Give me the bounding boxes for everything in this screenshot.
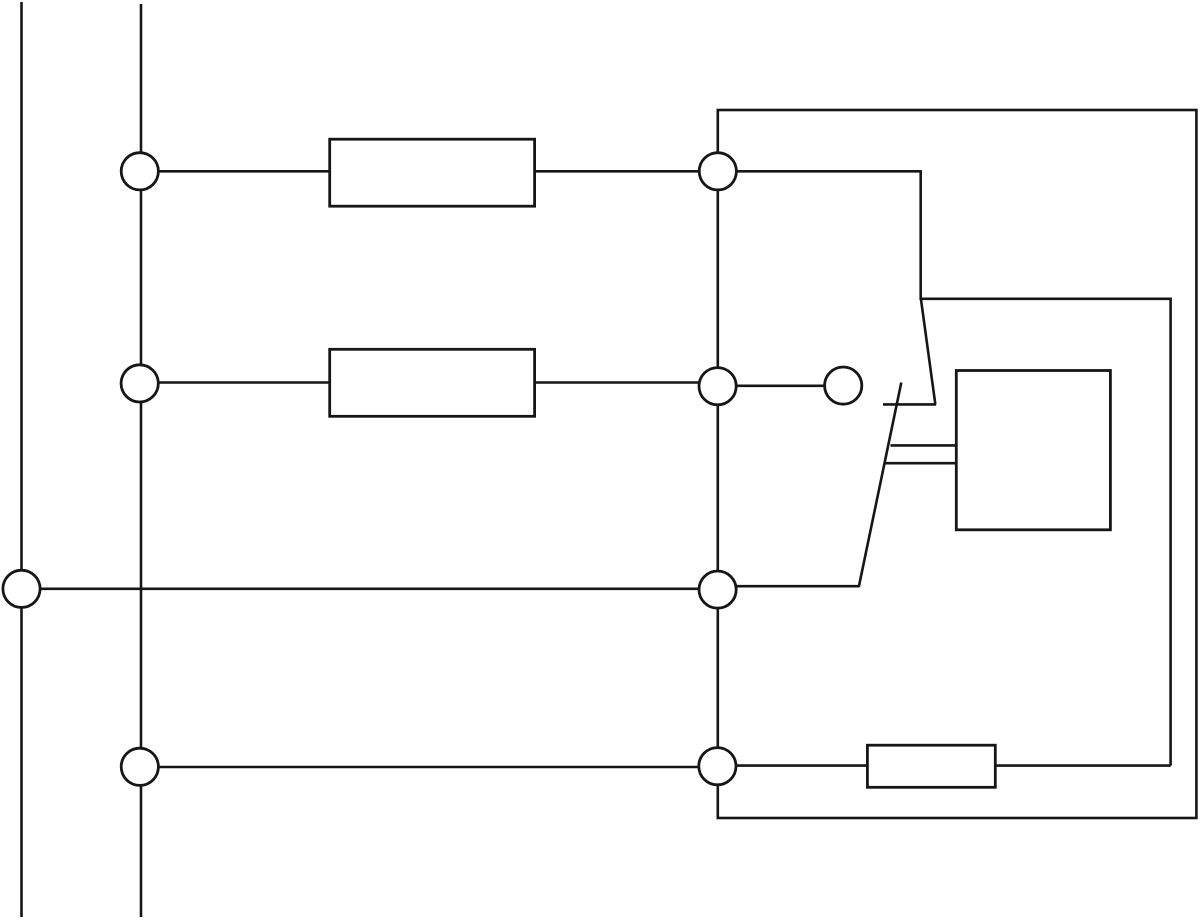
- terminal circle row3 on bus L1: [3, 570, 40, 607]
- wire row2 from bus L2 to terminal T1: [141, 381, 719, 384]
- switch S1 vertical lead: [919, 171, 922, 300]
- terminal circle node B row2: [699, 368, 736, 405]
- terminal circle row1 on bus L2: [121, 153, 158, 190]
- terminal circle node C row3: [699, 571, 736, 608]
- resistor R3 (small, bottom): [867, 745, 995, 787]
- mechanical link upper line: [891, 444, 957, 447]
- wire row3 node C to switch blade: [718, 585, 859, 588]
- wire inner elbow (switch top to right leg down): [922, 299, 1171, 766]
- terminal circle node A row1: [699, 153, 736, 190]
- enclosure outer rectangle: [718, 110, 1197, 818]
- terminal circle T1 switch input: [825, 367, 862, 404]
- switch S1 fixed contact tick: [883, 403, 936, 406]
- wire row4 from bus L2 to node D: [141, 766, 719, 769]
- wire row3 from bus L1 to node C: [22, 587, 719, 590]
- terminal circle row2 on bus L2: [121, 365, 158, 402]
- switch S1 blade: [859, 383, 902, 587]
- bus line L1 (left vertical): [20, 2, 23, 917]
- resistor R1 (fuse, row1): [330, 139, 535, 206]
- resistor R2 (fuse, row2): [330, 349, 535, 416]
- terminal circle row4 on bus L2: [121, 748, 158, 785]
- coil box K1: [956, 371, 1110, 530]
- switch S1 bent lead: [921, 299, 935, 404]
- wire row1 from bus L2 to node A: [141, 170, 718, 173]
- mechanical link lower line: [885, 462, 956, 465]
- wire row1 node A to switch top: [718, 170, 922, 173]
- terminal circle node D row4: [699, 748, 736, 785]
- wire row4 node D to inner vertical: [718, 764, 1171, 767]
- bus line L2 (second vertical): [140, 4, 143, 917]
- wire node B to terminal T1: [718, 384, 843, 387]
